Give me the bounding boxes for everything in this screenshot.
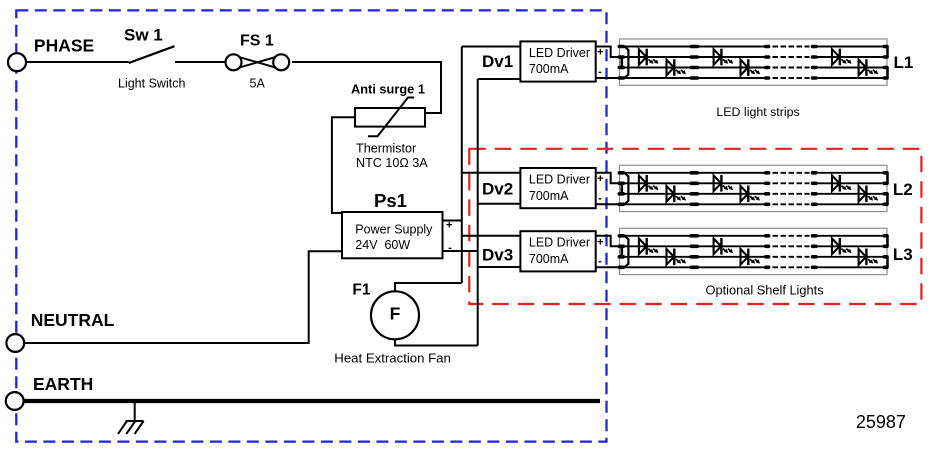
wire fan top to positive bus	[395, 283, 462, 292]
wire fuse to anti-surge thermistor	[292, 62, 441, 113]
optional shelf lights enclosure (red dashed)	[469, 149, 921, 304]
svg-text:Thermistor: Thermistor	[356, 141, 416, 155]
power supply Ps1 box	[342, 212, 443, 258]
wire thermistor to power supply input	[332, 117, 355, 213]
L3 right jumper bar (rails 3-4)	[886, 257, 889, 268]
wire neutral run to power supply	[23, 251, 342, 343]
ground (earth electrode symbol)	[118, 403, 144, 434]
fuse FS1 symbol	[226, 54, 290, 70]
LED strip L1 enclosure	[620, 39, 888, 85]
svg-text:PHASE: PHASE	[34, 36, 94, 56]
L2 right solder pads	[884, 173, 887, 205]
svg-text:LED Driver: LED Driver	[529, 46, 590, 60]
svg-text:LED light strips: LED light strips	[716, 105, 799, 119]
wire Dv3 - output to strip	[596, 266, 619, 268]
wire L3 rail 2	[620, 245, 766, 247]
wire L2 rail 3	[620, 193, 766, 195]
svg-text:24V 60W: 24V 60W	[355, 238, 410, 252]
svg-text:-: -	[448, 242, 452, 254]
wire Dv1 + output to strip	[596, 47, 619, 58]
L3 left outer jumper bracket (rails 1-4)	[625, 236, 629, 267]
wire Dv1 - output to strip	[596, 77, 619, 79]
wire earth bus (thick)	[22, 399, 600, 403]
svg-text:+: +	[597, 236, 603, 248]
svg-text:700mA: 700mA	[529, 62, 569, 76]
wire Dv3 + input	[462, 235, 521, 237]
svg-text:5A: 5A	[250, 77, 266, 91]
wire L3 rail 3	[620, 256, 766, 258]
svg-text:+: +	[597, 173, 603, 185]
thermistor RT1 body	[355, 108, 425, 127]
LED symbol 3 on strip L3	[714, 238, 734, 255]
wire L1 rail 1	[620, 46, 766, 48]
wire negative bus (vertical)	[477, 79, 479, 346]
LED symbol 1 on strip L2	[639, 175, 659, 192]
thermistor RT1 diagonal stroke	[368, 98, 414, 137]
wire L1 rail 4	[620, 77, 766, 79]
LED symbol 6 on strip L1	[859, 59, 879, 76]
LED symbol 3 on strip L1	[714, 49, 734, 66]
wire L3 rail 1	[620, 235, 766, 237]
L3 left solder pads	[619, 236, 623, 267]
L2 left outer jumper bracket (rails 1-4)	[625, 173, 629, 205]
svg-text:Sw 1: Sw 1	[124, 25, 163, 44]
wire Ps1 - output to negative bus	[443, 250, 478, 252]
svg-text:Ps1: Ps1	[374, 190, 407, 211]
svg-text:700mA: 700mA	[529, 189, 569, 203]
LED symbol 4 on strip L3	[741, 249, 761, 266]
terminal PHASE	[8, 53, 26, 71]
svg-text:EARTH: EARTH	[33, 374, 93, 394]
svg-text:Power Supply: Power Supply	[355, 223, 433, 237]
LED driver Dv1 box	[520, 41, 595, 81]
svg-text:-: -	[598, 256, 602, 268]
LED symbol 4 on strip L2	[741, 186, 761, 203]
svg-text:Dv3: Dv3	[482, 245, 513, 264]
L2 left solder pads	[619, 173, 623, 205]
wire fan bottom to negative bus	[395, 339, 478, 346]
wire L2 rail 2	[620, 182, 766, 184]
svg-text:+: +	[597, 47, 603, 59]
L1 left outer jumper bracket (rails 1-4)	[625, 47, 629, 79]
L1 mid solder pads group 1	[691, 47, 697, 79]
fan F1 (motor circle)	[371, 291, 419, 339]
svg-text:25987: 25987	[856, 412, 906, 432]
LED symbol 6 on strip L2	[859, 186, 879, 203]
svg-text:Anti surge 1: Anti surge 1	[351, 82, 425, 97]
LED symbol 2 on strip L3	[667, 249, 687, 266]
LED driver Dv3 box	[520, 231, 595, 271]
wire Ps1 + output to positive bus	[443, 220, 462, 222]
L3 mid solder pads group 2	[766, 236, 769, 267]
wire L2 rail 4	[620, 203, 766, 205]
wire L3 rail 4	[620, 266, 766, 268]
wire Dv2 - input	[478, 203, 521, 205]
L3 mid solder pads group 3	[813, 236, 816, 267]
L2 mid solder pads group 1	[691, 173, 697, 205]
LED strip L3 enclosure	[620, 228, 888, 274]
svg-text:700mA: 700mA	[529, 252, 569, 266]
wire phase from terminal to switch	[25, 61, 129, 63]
LED symbol 5 on strip L1	[832, 49, 852, 66]
svg-text:Heat Extraction Fan: Heat Extraction Fan	[334, 350, 451, 365]
svg-text:F1: F1	[352, 282, 370, 299]
L1 left jumper bar (rails 2-3)	[620, 57, 623, 68]
svg-text:NEUTRAL: NEUTRAL	[31, 310, 115, 330]
wire Dv3 + output to strip	[596, 236, 619, 247]
terminal EARTH	[6, 392, 24, 410]
switch Sw1 blade	[129, 46, 175, 63]
LED symbol 5 on strip L3	[832, 238, 852, 255]
L2 mid solder pads group 2	[766, 173, 769, 205]
L3 mid solder pads group 1	[691, 236, 697, 267]
LED symbol 2 on strip L1	[667, 59, 687, 76]
svg-text:Dv1: Dv1	[482, 52, 513, 71]
L2 right jumper bar (rails 3-4)	[886, 194, 889, 205]
LED symbol 3 on strip L2	[714, 175, 734, 192]
svg-text:L3: L3	[893, 245, 913, 264]
wire L1 rail 2	[620, 56, 766, 58]
L1 left solder pads	[619, 47, 623, 79]
wire Dv3 - input	[478, 266, 521, 268]
wire Dv1 - input	[478, 78, 521, 80]
mains enclosure border (blue dashed)	[16, 10, 606, 441]
L1 right solder pads	[884, 47, 887, 79]
svg-text:F: F	[390, 303, 401, 323]
wire switch to fuse	[175, 61, 226, 63]
LED symbol 5 on strip L2	[832, 175, 852, 192]
wire Dv2 + input	[462, 172, 521, 174]
svg-text:Dv2: Dv2	[482, 179, 513, 198]
wire Dv1 + input	[462, 46, 521, 48]
wire positive bus (vertical)	[461, 47, 463, 284]
svg-text:LED Driver: LED Driver	[529, 236, 590, 250]
wire L1 rail 3	[620, 67, 766, 69]
svg-text:Optional Shelf Lights: Optional Shelf Lights	[706, 282, 824, 297]
svg-text:-: -	[598, 66, 602, 78]
LED symbol 4 on strip L1	[741, 59, 761, 76]
svg-text:LED Driver: LED Driver	[529, 173, 590, 187]
L3 right solder pads	[884, 236, 887, 267]
L1 right jumper bar (rails 1-2)	[886, 47, 889, 58]
wire L2 rail 1	[620, 172, 766, 174]
L2 left jumper bar (rails 2-3)	[620, 183, 623, 194]
L1 mid solder pads group 2	[766, 47, 769, 79]
LED strip L2 enclosure	[620, 165, 888, 211]
terminal NEUTRAL	[6, 334, 24, 352]
L2 right jumper bar (rails 1-2)	[886, 173, 889, 184]
L3 left jumper bar (rails 2-3)	[620, 246, 623, 256]
svg-text:-: -	[598, 193, 602, 205]
wire Dv2 - output to strip	[596, 203, 619, 205]
svg-text:Light Switch: Light Switch	[118, 77, 185, 91]
wire Dv2 + output to strip	[596, 173, 619, 184]
svg-text:L1: L1	[894, 53, 914, 72]
svg-text:L2: L2	[893, 180, 913, 199]
LED symbol 1 on strip L3	[639, 238, 659, 255]
L3 right jumper bar (rails 1-2)	[886, 236, 889, 247]
LED symbol 1 on strip L1	[639, 49, 659, 66]
L1 mid solder pads group 3	[813, 47, 816, 79]
LED symbol 2 on strip L2	[667, 186, 687, 203]
LED symbol 6 on strip L3	[859, 249, 879, 266]
svg-text:FS 1: FS 1	[240, 33, 274, 50]
L1 right jumper bar (rails 3-4)	[886, 68, 889, 79]
svg-text:NTC 10Ω 3A: NTC 10Ω 3A	[356, 156, 428, 170]
L2 mid solder pads group 3	[813, 173, 816, 205]
LED driver Dv2 box	[520, 168, 595, 208]
